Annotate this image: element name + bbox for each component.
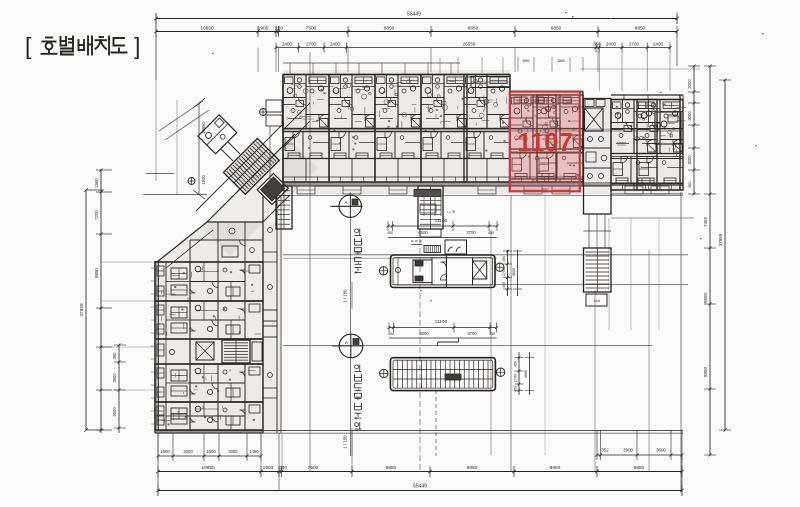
top wing section 3 units — [611, 94, 683, 96]
svg-text:8850: 8850 — [384, 26, 395, 32]
svg-text:450: 450 — [502, 256, 506, 262]
top wing section 1 units — [283, 74, 510, 76]
svg-text:450: 450 — [514, 361, 518, 367]
svg-text:450: 450 — [514, 386, 518, 392]
struct B right dims — [518, 352, 520, 395]
svg-text:2000: 2000 — [687, 79, 692, 89]
left dimension column — [85, 190, 87, 430]
svg-text:8850: 8850 — [550, 465, 561, 471]
svg-text:8850: 8850 — [703, 366, 708, 377]
svg-text:1 / 150: 1 / 150 — [343, 435, 348, 449]
left wing stair core — [190, 339, 263, 364]
datum circle left of struct A — [379, 267, 387, 275]
svg-text:8850: 8850 — [551, 26, 562, 32]
svg-text:352: 352 — [601, 448, 609, 453]
datum circle right of struct A — [496, 263, 504, 271]
svg-text:7500: 7500 — [308, 465, 319, 471]
svg-text:2700: 2700 — [514, 374, 518, 382]
stair tower left — [276, 186, 292, 229]
svg-text:8850: 8850 — [386, 465, 397, 471]
connection corridor — [283, 103, 310, 130]
svg-text:2700: 2700 — [306, 42, 317, 47]
svg-text:3900: 3900 — [623, 448, 633, 453]
svg-text:8850: 8850 — [635, 26, 646, 32]
svg-text:350: 350 — [593, 42, 601, 47]
svg-text:55449: 55449 — [407, 12, 421, 18]
svg-text:10850: 10850 — [201, 465, 215, 471]
roof plan (struct B) — [390, 358, 495, 391]
svg-text:1900: 1900 — [201, 175, 206, 185]
svg-text:37959: 37959 — [79, 303, 85, 317]
svg-text:1450: 1450 — [249, 449, 259, 454]
svg-text:37959: 37959 — [718, 233, 723, 246]
svg-text:3600: 3600 — [512, 268, 516, 276]
svg-text:450: 450 — [488, 231, 494, 235]
right dimension column — [693, 66, 695, 194]
diagonal wing: stair block — [223, 138, 279, 194]
svg-text:3850: 3850 — [557, 59, 565, 63]
left wing top row + bevel — [157, 222, 207, 262]
diagonal wing dimension lines — [159, 101, 203, 131]
svg-text:[: [ — [25, 33, 32, 59]
svg-text:1903: 1903 — [263, 465, 274, 471]
scan wash left wing — [155, 222, 282, 433]
svg-text:A: A — [345, 340, 348, 345]
datum circle left of struct B — [380, 369, 388, 377]
svg-text:3850: 3850 — [522, 59, 530, 63]
svg-text:450: 450 — [502, 282, 506, 288]
svg-text:450: 450 — [687, 181, 692, 188]
top wing section 2 units (unit 1107 pair) — [509, 75, 511, 92]
svg-text:1500: 1500 — [160, 449, 170, 454]
vertical label: 옥탑 평면도 — [355, 229, 359, 233]
svg-text:1500: 1500 — [94, 178, 99, 188]
svg-text:3000: 3000 — [687, 155, 692, 165]
diagonal wing: corridor edges — [207, 134, 295, 222]
svg-text:6500: 6500 — [419, 331, 429, 336]
title: [ 호별배치도 ] — [42, 37, 127, 55]
circled-cross marker B — [260, 109, 267, 116]
svg-text:1 / 150: 1 / 150 — [343, 289, 348, 303]
svg-text:2400: 2400 — [330, 42, 341, 47]
svg-text:Lxxx: Lxxx — [594, 299, 601, 303]
svg-text:3900: 3900 — [112, 373, 117, 383]
small dims above unit 1107 — [517, 57, 519, 72]
svg-text:8850: 8850 — [94, 268, 99, 278]
rooftop plan (struct A) — [391, 255, 496, 288]
struct A right dims — [507, 250, 509, 296]
stair+elevator tower right — [584, 99, 612, 215]
svg-text:7500: 7500 — [306, 26, 317, 32]
svg-text:8850: 8850 — [467, 465, 478, 471]
svg-text:2700: 2700 — [629, 42, 640, 47]
circled-cross marker A — [188, 178, 195, 185]
svg-text:11100: 11100 — [435, 319, 448, 325]
heavy bottom wall left wing — [155, 430, 263, 433]
left wing corridor — [262, 195, 264, 433]
svg-text:10850: 10850 — [200, 26, 214, 32]
svg-text:1905: 1905 — [258, 26, 269, 32]
svg-text:3700: 3700 — [467, 331, 477, 336]
bottom dimension lines — [158, 455, 261, 457]
scan wash top wing — [283, 70, 683, 194]
svg-text:11100: 11100 — [435, 218, 448, 224]
svg-text:A: A — [344, 200, 347, 205]
svg-text:3600: 3600 — [524, 370, 528, 378]
left edge grid extension — [155, 80, 157, 181]
svg-text:350: 350 — [112, 352, 117, 360]
svg-text:2700: 2700 — [502, 268, 506, 276]
svg-text:3600: 3600 — [112, 407, 117, 417]
stairs in tower — [584, 248, 612, 292]
svg-text:450: 450 — [489, 332, 495, 336]
svg-text:3000: 3000 — [228, 449, 238, 454]
svg-text:3600: 3600 — [656, 448, 666, 453]
heavy bottom wall top wing — [283, 182, 683, 186]
svg-text:8850: 8850 — [703, 292, 708, 303]
red highlight overlay unit 1107 — [510, 92, 580, 192]
section marker circle 1 — [339, 195, 361, 217]
svg-text:8850: 8850 — [468, 26, 479, 32]
corridor walls across wing — [283, 128, 510, 130]
svg-text:55449: 55449 — [413, 484, 427, 490]
top dimension lines — [156, 18, 677, 20]
svg-text:L=78: L=78 — [447, 210, 455, 214]
svg-text:1600: 1600 — [206, 449, 216, 454]
svg-text:]: ] — [134, 33, 140, 59]
scan wash diagonal wing — [202, 140, 318, 256]
svg-text:3700: 3700 — [466, 230, 476, 235]
diagonal band connectors — [228, 142, 240, 154]
svg-text:2400: 2400 — [606, 42, 617, 47]
diagonal wing: unit room — [198, 115, 237, 154]
diagonal wing: elevator block — [257, 173, 288, 204]
scan speckles — [565, 12, 567, 13]
svg-text:3300: 3300 — [183, 449, 193, 454]
svg-text:7459: 7459 — [703, 216, 708, 227]
svg-text:230: 230 — [279, 465, 287, 471]
svg-text:2400: 2400 — [282, 42, 293, 47]
svg-text:2400: 2400 — [653, 42, 664, 47]
svg-text:8850: 8850 — [634, 465, 645, 471]
svg-text:230: 230 — [275, 26, 283, 32]
porch steps below top wing — [297, 186, 315, 194]
section marker circle 2 — [339, 334, 363, 358]
svg-text:450: 450 — [388, 332, 394, 336]
left wing apartment block — [154, 262, 156, 433]
svg-text:450: 450 — [387, 231, 393, 235]
vertical label: 옥탑 지붕 평면도 — [355, 365, 359, 369]
svg-text:26550: 26550 — [463, 42, 476, 47]
svg-text:7200: 7200 — [94, 210, 99, 220]
stair tower center — [418, 186, 443, 229]
svg-text:6500: 6500 — [418, 230, 428, 235]
machine room attachments — [424, 246, 441, 253]
grid lines — [283, 195, 683, 197]
svg-text:3000: 3000 — [687, 111, 692, 121]
datum circle right of struct B — [496, 368, 504, 376]
left wing stairs hatch — [222, 340, 250, 363]
svg-text:1107: 1107 — [517, 129, 572, 157]
